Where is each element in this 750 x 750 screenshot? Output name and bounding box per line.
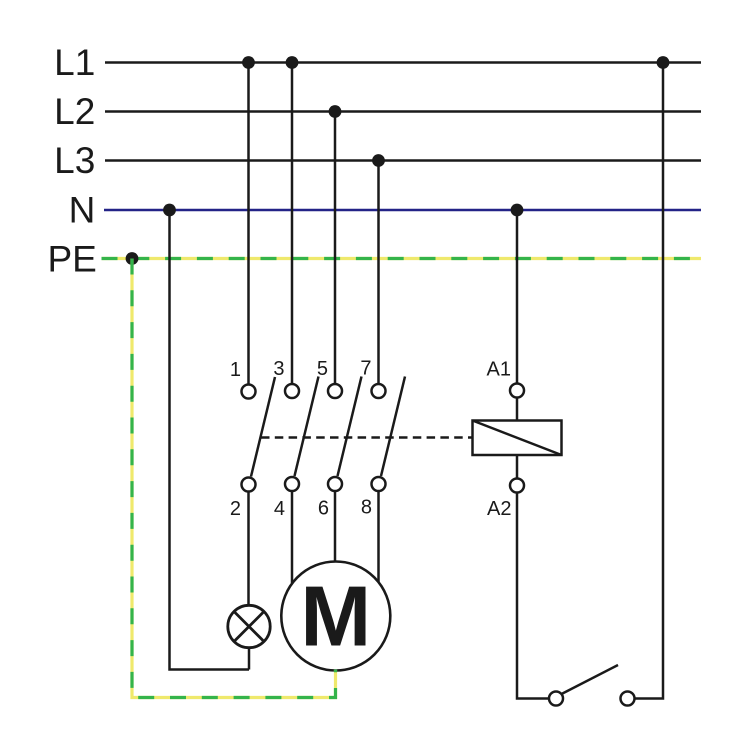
- bus L1 wire: [105, 61, 701, 64]
- switch S1 right terminal: [621, 692, 635, 706]
- node on L3 feeding contact 7: [372, 154, 385, 167]
- contactor coil K1: [473, 421, 562, 456]
- contact blade 7-8: [381, 377, 405, 477]
- motor M1: [281, 562, 390, 671]
- bus L3 wire: [105, 159, 701, 162]
- svg-text:3: 3: [273, 358, 284, 380]
- node on N feeding lamp return: [163, 204, 176, 217]
- contact blade 5-6: [338, 377, 362, 477]
- node on L1 feeding contact 1: [242, 56, 255, 69]
- svg-text:A2: A2: [487, 498, 511, 520]
- bus L2 wire: [105, 110, 701, 113]
- terminal 7: [372, 384, 386, 398]
- svg-text:L2: L2: [54, 91, 95, 132]
- bus N wire (blue): [104, 209, 701, 211]
- terminal 5: [328, 384, 342, 398]
- wire terminal 2 to lamp: [247, 492, 250, 606]
- node on L2 feeding contact 5: [329, 105, 342, 118]
- contact blade 1-2: [251, 377, 275, 477]
- mechanical linkage (dashed): [261, 436, 473, 439]
- svg-text:L3: L3: [54, 140, 95, 181]
- svg-text:M: M: [300, 570, 371, 665]
- node on PE feeding motor earth: [126, 252, 139, 265]
- coil terminal A2: [510, 479, 524, 493]
- terminal 8: [372, 477, 386, 491]
- terminal 6: [328, 477, 342, 491]
- svg-text:N: N: [69, 190, 96, 231]
- wire N to coil A1: [516, 210, 519, 384]
- svg-text:2: 2: [230, 498, 241, 520]
- wire L2 to terminal 5: [334, 112, 337, 386]
- wire A1 to coil: [516, 398, 519, 421]
- wire A2 to switch: [517, 493, 549, 699]
- switch S1 left terminal: [549, 692, 563, 706]
- terminal 2: [242, 478, 256, 492]
- bus PE wire (green dashes): [102, 257, 702, 260]
- svg-text:A1: A1: [487, 358, 511, 380]
- wire terminal 4 to motor: [291, 491, 294, 583]
- switch S1 blade: [562, 665, 619, 694]
- wire L1 to terminal 1: [247, 63, 250, 386]
- svg-text:PE: PE: [47, 239, 96, 280]
- svg-text:4: 4: [274, 498, 285, 520]
- wire lamp to N return: [248, 648, 251, 670]
- coil terminal A1: [510, 384, 524, 398]
- wire terminal 8 to motor: [377, 491, 380, 583]
- node on L1 feeding control circuit: [657, 56, 670, 69]
- PE earth wire to motor (yellow base): [132, 259, 336, 698]
- wire N to lamp return: [170, 210, 250, 670]
- wire terminal 6 to motor: [334, 491, 337, 562]
- wire L3 to terminal 7: [377, 161, 380, 386]
- wire coil to A2: [516, 455, 519, 479]
- svg-text:1: 1: [230, 359, 241, 381]
- terminal 4: [285, 477, 299, 491]
- lamp E1: [228, 605, 270, 647]
- bus PE wire (yellow base): [102, 257, 702, 260]
- terminal 3: [285, 384, 299, 398]
- svg-text:7: 7: [360, 357, 371, 379]
- node on N feeding coil A1: [511, 204, 524, 217]
- wire L1 to terminal 3: [291, 63, 294, 386]
- PE earth wire to motor (green dashes): [132, 259, 336, 698]
- svg-text:L1: L1: [54, 42, 95, 83]
- svg-text:8: 8: [361, 497, 372, 519]
- wire L1 to switch (right drop): [635, 63, 664, 699]
- contact blade 3-4: [295, 377, 319, 477]
- terminal 1: [242, 385, 256, 399]
- svg-text:5: 5: [317, 358, 328, 380]
- svg-text:6: 6: [318, 497, 329, 519]
- node on L1 feeding contact 3: [286, 56, 299, 69]
